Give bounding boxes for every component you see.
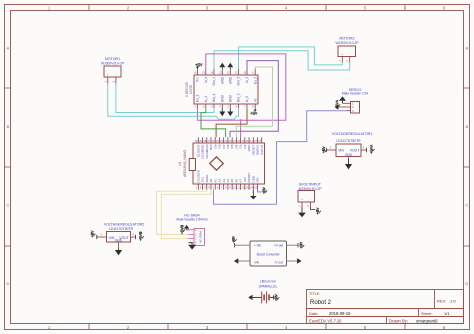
svg-text:Lithium Ion: Lithium Ion <box>260 279 276 283</box>
Boost Converter +Vin pin wire <box>235 244 250 246</box>
connector MOTOR2 pin 1 <box>341 57 343 63</box>
U1 bottom pin (A4) <box>227 184 229 190</box>
L293D top pin 13 (GND) <box>221 69 223 75</box>
ic H-BRIDGE L293D body <box>194 75 258 104</box>
svg-text:Out_1: Out_1 <box>212 93 216 102</box>
ic U1 ARDUINO_NANO body <box>193 143 265 184</box>
svg-text:D: D <box>465 281 468 286</box>
svg-text:REV:: REV: <box>437 299 446 304</box>
wire MOTOR1 pin1 to L293D Out_2 (cyan) <box>108 84 239 120</box>
svg-text:C: C <box>465 203 468 208</box>
svg-text:A: A <box>465 46 468 51</box>
VR2 GND pin and ground flag <box>118 242 120 249</box>
U1 top pin 11 (D3) <box>240 137 242 143</box>
svg-text:D: D <box>7 281 10 286</box>
ground flag at HC-SR04 pin 4 <box>189 243 193 245</box>
svg-text:MOTOR1: MOTOR1 <box>105 57 120 61</box>
svg-text:VOLTAGEREGULATOR1: VOLTAGEREGULATOR1 <box>332 132 372 136</box>
+5VB flag at VR2 VOUT <box>135 235 137 239</box>
L293D top pin 15 (In_4) <box>205 69 207 75</box>
+5V flag at L293D pin 8 (Vs) <box>254 108 256 110</box>
L293D top pin 14 (Out_4) <box>213 69 215 75</box>
U1 crystal rectangle <box>189 159 195 171</box>
svg-text:+V out: +V out <box>274 244 283 248</box>
svg-text:1.0: 1.0 <box>450 299 456 304</box>
svg-text:Boost Converter: Boost Converter <box>257 253 281 257</box>
ground flag at Boost Converter -Vin <box>234 258 238 263</box>
connector HC-SR04 body <box>194 229 205 246</box>
svg-text:VIN: VIN <box>109 236 115 240</box>
title block row line 2 <box>307 316 464 318</box>
L293D bottom pin 7 (In_2) <box>246 104 248 108</box>
U1 bottom pin (A2) <box>218 184 220 190</box>
Boost Converter -Vin pin wire <box>238 260 250 262</box>
+BV flag at battery positive <box>273 295 275 299</box>
svg-text:omargrant9: omargrant9 <box>416 319 438 324</box>
svg-text:1/1: 1/1 <box>444 311 450 316</box>
svg-text:2018-09-15: 2018-09-15 <box>329 311 351 316</box>
U1 top pin 14 (RESET) <box>252 137 254 143</box>
svg-text:Vcc: Vcc <box>196 76 200 82</box>
wire U1 A1 to HC-SR04 pin3 (yellow) <box>161 190 211 239</box>
svg-text:-V out: -V out <box>274 261 283 265</box>
8VOLTINPUT pin 2 <box>310 202 312 207</box>
svg-text:WJ300V-5.0-2P: WJ300V-5.0-2P <box>335 41 359 45</box>
svg-text:B: B <box>7 124 10 129</box>
wire L293D In_4 / En_1 to U1 D3 (magenta) <box>197 54 285 120</box>
HC-SR04 pin 1 <box>189 229 195 231</box>
SERVO pin 3 stub <box>347 110 351 112</box>
U1 top pin 4 (D10) <box>210 137 212 143</box>
title block REV cell divider <box>434 290 436 309</box>
+5VB flag at HC-SR04 pin 1 <box>187 229 189 231</box>
VR1 VIN pin <box>328 149 337 151</box>
wire U1 A0 to HC-SR04 pin2 (yellow) <box>157 190 207 235</box>
ground flag at U1 GND bottom pin <box>252 190 254 196</box>
L293D bottom pin 8 (Vs) <box>254 104 256 108</box>
title block outline <box>307 290 464 324</box>
connector MOTOR1 pin 2 <box>115 77 117 84</box>
svg-text:C: C <box>7 203 10 208</box>
battery right wire <box>270 296 274 298</box>
battery left wire <box>253 296 262 298</box>
U1 top pin 13 (GND) <box>248 137 250 143</box>
L293D top pin 11 (Out_3) <box>238 69 240 75</box>
svg-text:WJ300V-5.0-2P: WJ300V-5.0-2P <box>101 62 125 66</box>
svg-text:GND: GND <box>115 238 123 242</box>
SERVO pin 2 wire <box>338 106 350 108</box>
connector MOTOR2 pin 2 <box>349 57 351 63</box>
U1 bottom pin (RESET) <box>248 184 250 190</box>
ground flag at L293D pin 13 <box>221 67 223 69</box>
title block Sheet cell divider <box>418 309 420 317</box>
U1 bottom pin (AREF) <box>206 184 208 190</box>
L293D top pin 16 (Vcc) <box>196 69 198 75</box>
svg-text:D1/TX1: D1/TX1 <box>260 144 264 155</box>
svg-text:B: B <box>465 124 468 129</box>
svg-text:VIN: VIN <box>338 149 344 153</box>
L293D bottom pin 4 (GND) <box>221 104 223 108</box>
ground flag at L293D pin 12 <box>229 67 231 69</box>
svg-text:EasyEDA V5.7.26: EasyEDA V5.7.26 <box>309 319 342 324</box>
U1 top pin 3 (D11/MOSI) <box>206 137 208 143</box>
+8V flag at 8VOLTINPUT pin 2 <box>311 207 316 209</box>
HC-SR04 pin 2 <box>189 234 195 236</box>
+8V flag at VR2 VIN <box>97 236 98 238</box>
U1 bottom pin (GND) <box>252 184 254 190</box>
U1 diamond symbol <box>210 157 224 170</box>
U1 bottom pin (A7) <box>240 184 242 190</box>
HC-SR04 pin 3 <box>189 238 195 240</box>
svg-text:Date:: Date: <box>309 311 319 316</box>
svg-text:-Vin: -Vin <box>254 261 260 265</box>
ground flag at SERVO pin 2 <box>335 104 339 109</box>
svg-text:VIN: VIN <box>256 178 260 183</box>
VR2 VOUT pin <box>131 236 136 238</box>
svg-text:Robot 2: Robot 2 <box>310 300 332 306</box>
connector MOTOR1 body <box>104 66 121 77</box>
L293D bottom pin 1 (En_1) <box>196 104 198 108</box>
svg-text:LD1117DT50TR: LD1117DT50TR <box>109 227 134 231</box>
wire magenta branch down to U1 D3 <box>240 120 242 137</box>
U1 bottom pin (A3) <box>223 184 225 190</box>
svg-text:HC-SR04: HC-SR04 <box>199 231 203 243</box>
svg-text:2PARALLEL: 2PARALLEL <box>259 285 278 289</box>
svg-text:In_3: In_3 <box>245 77 249 83</box>
svg-text:8VOLTINPUT: 8VOLTINPUT <box>299 183 322 187</box>
connector 8VOLTINPUT body <box>298 191 315 203</box>
ground flag at 8VOLTINPUT pin 1 <box>301 207 303 213</box>
svg-text:-: - <box>349 53 350 56</box>
svg-text:LD1117DT50TR: LD1117DT50TR <box>336 139 361 143</box>
svg-text:GND: GND <box>345 153 353 157</box>
svg-text:ARDUINO_NANO: ARDUINO_NANO <box>183 149 187 177</box>
U1 top pin 10 (D4) <box>235 137 237 143</box>
svg-text:Sheet:: Sheet: <box>421 311 433 316</box>
wire MOTOR1 pin2 to L293D Out_1 (cyan) <box>116 84 214 113</box>
svg-text:A: A <box>7 46 10 51</box>
HC-SR04 pin 4 <box>189 242 195 244</box>
+BV flag at Boost Converter +Vin <box>234 243 236 247</box>
svg-text:En_2: En_2 <box>253 77 257 85</box>
title block DrawnBy cell divider <box>386 317 388 324</box>
svg-text:L293D: L293D <box>189 84 193 94</box>
wire SERVO pin3 to U1 A2 (blue) <box>214 111 347 205</box>
wire L293D Out_3 to MOTOR2 pin1 (cyan) <box>239 47 343 69</box>
svg-text:GND: GND <box>229 76 233 84</box>
U1 top pin 15 (D0/RX1) <box>257 137 259 143</box>
svg-text:In_4: In_4 <box>204 77 208 83</box>
ground flag at L293D pin 4 <box>221 108 223 111</box>
wire L293D In_2 to U1 D9 (brown) <box>216 108 247 137</box>
+5V flag at L293D pin 16 (Vcc) <box>196 67 198 69</box>
svg-text:-: - <box>115 74 116 77</box>
connector SERVO body <box>351 102 360 114</box>
svg-text:+ Vin: + Vin <box>254 244 262 248</box>
ground flag at battery negative <box>248 295 252 300</box>
battery cell plates <box>261 291 263 303</box>
+8V flag at Boost Converter +V out <box>297 243 299 247</box>
L293D top pin 12 (GND) <box>229 69 231 75</box>
L293D bottom pin 5 (GND) <box>229 104 231 108</box>
svg-text:Out_2: Out_2 <box>237 93 241 102</box>
ground flag at Boost Converter -V out <box>297 258 301 263</box>
VR1 VOUT pin <box>361 149 367 151</box>
U1 top pin 5 (D9) <box>214 137 216 143</box>
L293D top pin 10 (In_3) <box>246 69 248 75</box>
svg-text:Drawn By:: Drawn By: <box>389 319 408 324</box>
svg-text:TITLE:: TITLE: <box>309 292 320 296</box>
wire L293D In_3 to U1 D5 (purple) <box>230 61 278 138</box>
svg-text:Male header 2.54mm: Male header 2.54mm <box>176 218 207 222</box>
svg-text:Out_4: Out_4 <box>212 77 216 86</box>
regulator VOLTAGEREGULATOR1 body <box>336 144 361 157</box>
regulator VOLTAGEREGULATOR2 body <box>107 232 131 243</box>
connector MOTOR2 body <box>338 46 356 57</box>
SERVO pin 1 wire <box>343 102 351 104</box>
frame row ticks right <box>464 87 470 89</box>
svg-text:GND: GND <box>229 94 233 102</box>
Boost Converter +V out pin wire <box>287 244 299 246</box>
svg-text:GND: GND <box>221 94 225 102</box>
VR2 VIN pin <box>98 236 107 238</box>
U1 top pin 8 (D6) <box>227 137 229 143</box>
svg-text:Vs: Vs <box>253 98 257 102</box>
L293D bottom pin 6 (Out_2) <box>238 104 240 108</box>
svg-text:U1: U1 <box>178 161 182 165</box>
U1 top pin 7 (D7) <box>223 137 225 143</box>
+8V flag at U1 VIN pin <box>258 190 262 192</box>
module Boost Converter body <box>250 241 287 266</box>
svg-text:VOLTAGEREGULATOR2: VOLTAGEREGULATOR2 <box>104 222 144 226</box>
+5VA flag at SERVO pin 1 <box>342 101 344 104</box>
U1 bottom pin (+5V) <box>244 184 246 190</box>
U1 bottom pin (A5) <box>231 184 233 190</box>
frame row ticks left <box>5 87 11 89</box>
U1 top pin 2 (D12/MISO) <box>202 137 204 143</box>
+5VA flag at VR1 VOUT <box>366 148 368 152</box>
junction dot on magenta net <box>240 119 242 121</box>
connector MOTOR1 pin 1 <box>107 77 109 84</box>
U1 bottom pin (A6) <box>235 184 237 190</box>
Boost Converter -V out pin wire <box>287 260 298 262</box>
U1 bottom pin (VIN) <box>257 184 259 190</box>
svg-text:En_1: En_1 <box>196 95 200 103</box>
svg-text:-: - <box>310 198 311 201</box>
U1 bottom pin (A1) <box>214 184 216 190</box>
U1 top pin 12 (D2) <box>244 137 246 143</box>
wire L293D In_1 to U1 D7 (green) <box>201 108 226 137</box>
L293D top pin 9 (En_2) <box>254 69 256 75</box>
U1 bottom pin (3V3) <box>202 184 204 190</box>
frame column ticks top <box>88 5 90 11</box>
U1 top pin 9 (D5) <box>231 137 233 143</box>
svg-text:MOTOR2: MOTOR2 <box>339 37 354 41</box>
L293D bottom pin 3 (Out_1) <box>213 104 215 108</box>
U1 top pin 1 (D13/SCK) <box>197 137 199 143</box>
wire L293D Out_4 to MOTOR2 pin2 (cyan) <box>214 51 350 70</box>
U1 top pin 16 (D1/TX1) <box>261 137 263 143</box>
frame column ticks bottom <box>88 324 90 330</box>
U1 bottom pin (D13/SCK) <box>197 184 199 190</box>
svg-text:In_1: In_1 <box>204 96 208 102</box>
svg-text:Out_3: Out_3 <box>237 77 241 86</box>
svg-text:GND: GND <box>221 76 225 84</box>
title block row line 1 <box>307 308 464 310</box>
+8V flag at VR1 VIN <box>326 149 327 151</box>
8VOLTINPUT pin 1 <box>301 202 303 207</box>
L293D bottom pin 2 (In_1) <box>205 104 207 108</box>
svg-text:Male Header 2.54: Male Header 2.54 <box>342 91 368 95</box>
U1 bottom pin (A0) <box>210 184 212 190</box>
wire L293D En_2 to U1 D4 (pale green) <box>236 67 272 137</box>
VR1 GND pin and ground flag <box>348 157 350 160</box>
svg-text:In_2: In_2 <box>245 96 249 102</box>
U1 top pin 6 (D8) <box>218 137 220 143</box>
ground flag at L293D pin 5 <box>229 108 231 111</box>
